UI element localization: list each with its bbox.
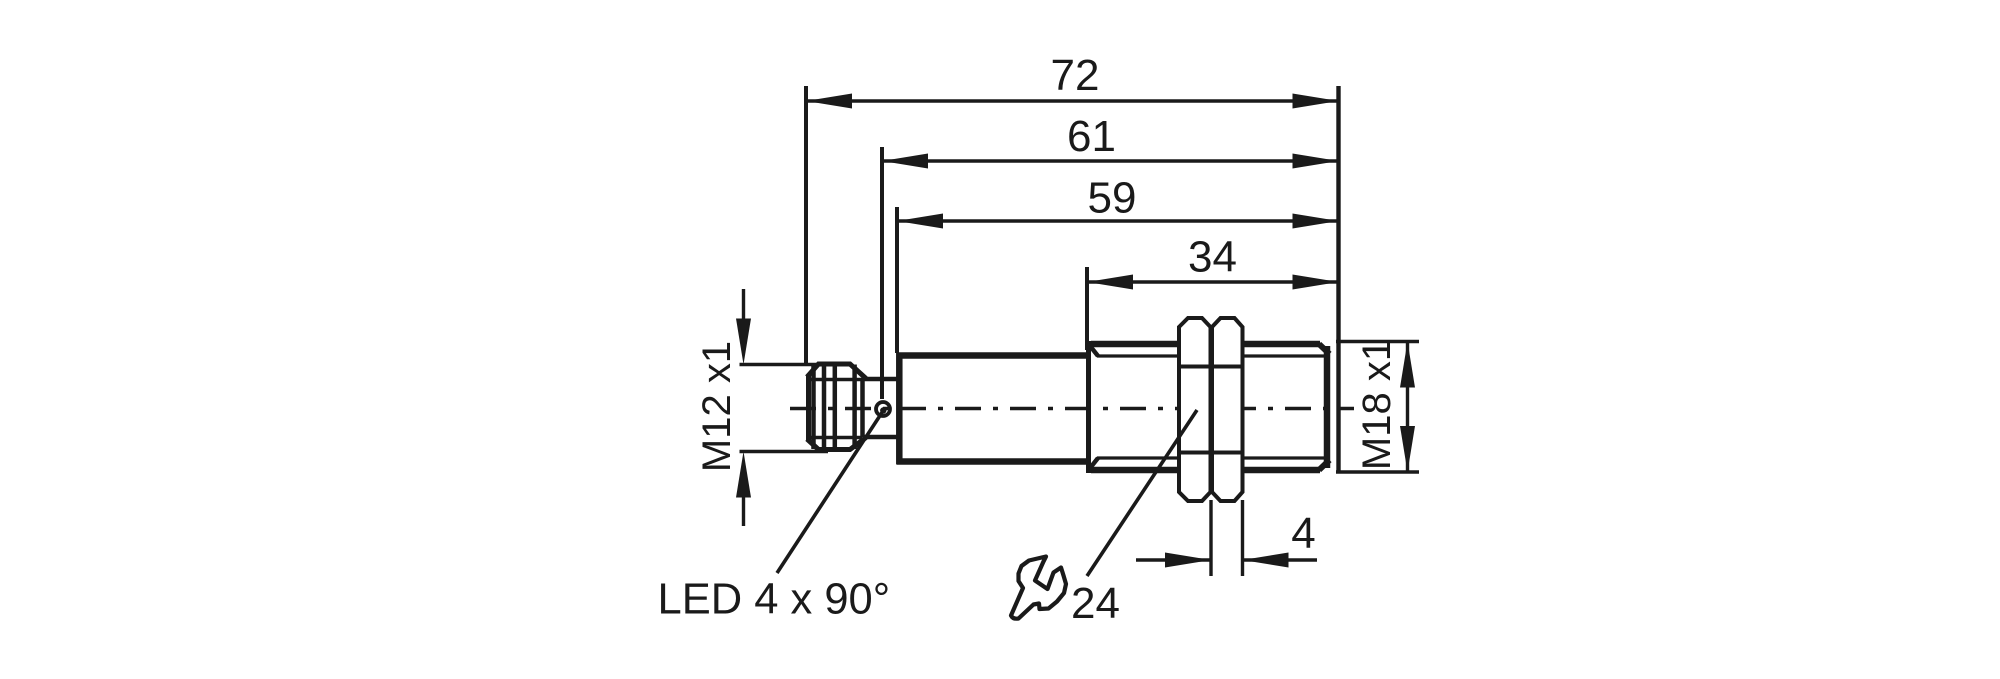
dim 4 left arrow xyxy=(1165,553,1211,568)
svg-text:59: 59 xyxy=(1088,174,1137,223)
dim 59 left arrow xyxy=(897,214,943,229)
dim 59 right arrow xyxy=(1293,214,1339,229)
M12 connector thread outline top xyxy=(807,364,866,379)
dim M12 lower stem xyxy=(742,494,745,526)
dim 61 left arrow xyxy=(882,154,928,169)
LED leader line xyxy=(777,411,883,573)
hex nut 2 facet line top xyxy=(1212,365,1243,369)
dim 34 right arrow xyxy=(1293,275,1339,290)
wrench icon xyxy=(1011,557,1066,619)
dim M18 upper arrow xyxy=(1400,342,1415,388)
M12 connector thread outline bottom xyxy=(807,438,866,450)
dim 34 line xyxy=(1087,280,1339,283)
hex nut 1 xyxy=(1179,318,1211,501)
M18 thread start chamfer bottom xyxy=(1089,458,1099,470)
M12 connector end face xyxy=(806,376,811,440)
M18 end chamfer top xyxy=(1319,344,1330,354)
dim M18 line xyxy=(1406,342,1409,473)
hex nut 2 facet line bottom xyxy=(1212,451,1243,455)
M12 connector neck top xyxy=(864,377,898,382)
dim M12 lower arrow xyxy=(736,452,751,498)
dim 4 left extension line xyxy=(1209,500,1212,576)
M12 thread root line bottom xyxy=(808,436,862,440)
dim 4 right arrow xyxy=(1243,553,1289,568)
dim 61 right arrow xyxy=(1293,154,1339,169)
centerline xyxy=(790,407,1354,410)
M12 thread line 4 xyxy=(852,365,857,450)
dim M12 lower tick xyxy=(740,450,829,453)
dim 72 right extension line xyxy=(1336,86,1340,472)
dim 4 left line xyxy=(1136,558,1211,561)
svg-text:M18 x1: M18 x1 xyxy=(1355,339,1399,470)
M18 thread root bottom line xyxy=(1097,456,1326,459)
dim 72 left extension line xyxy=(804,86,808,366)
svg-text:M12 x1: M12 x1 xyxy=(695,341,739,472)
M18 thread OD bottom line xyxy=(1091,467,1320,474)
dim 34 extension line xyxy=(1085,267,1089,350)
svg-text:24: 24 xyxy=(1071,579,1120,628)
dim 34 left arrow xyxy=(1087,275,1133,290)
dim 4 right line xyxy=(1243,558,1318,561)
M12 thread line 1 xyxy=(811,365,816,450)
svg-text:4: 4 xyxy=(1291,509,1315,558)
dim M12 upper stem xyxy=(742,289,745,322)
dim M18 upper tick xyxy=(1336,340,1419,343)
M18 thread step edge xyxy=(1086,341,1091,473)
wrench leader line xyxy=(1087,410,1197,576)
svg-text:72: 72 xyxy=(1051,51,1100,100)
svg-text:34: 34 xyxy=(1188,233,1237,282)
dim M12 upper arrow xyxy=(736,319,751,365)
svg-text:LED 4 x 90°: LED 4 x 90° xyxy=(658,576,891,624)
dim 59 line xyxy=(897,219,1339,222)
M12 thread root line top xyxy=(808,378,862,382)
M12 thread line 2 xyxy=(822,365,827,450)
dim 61 line xyxy=(882,159,1339,162)
dim 72 right arrow xyxy=(1293,94,1339,109)
dim M12 upper tick xyxy=(740,363,829,366)
dim 4 right extension line xyxy=(1241,500,1244,576)
M12 thread line 3 xyxy=(833,365,838,450)
sensor body top edge xyxy=(897,352,1088,359)
M18 thread OD top line xyxy=(1091,341,1320,348)
hex nut 1 facet line bottom xyxy=(1179,451,1211,455)
M18 end face xyxy=(1324,346,1331,468)
sensor body left edge xyxy=(896,353,903,465)
hex nut 2 xyxy=(1212,318,1243,501)
LED window circle xyxy=(876,402,890,416)
M18 end chamfer bottom xyxy=(1319,460,1330,470)
hex nut 1 facet line top xyxy=(1179,365,1211,369)
LED leader dot xyxy=(880,407,886,413)
dim M18 lower arrow xyxy=(1400,426,1415,472)
svg-text:61: 61 xyxy=(1067,112,1116,161)
dim 61 extension line xyxy=(880,147,884,399)
M12 thread runout edge xyxy=(860,378,865,437)
M12 connector neck bottom xyxy=(864,435,898,440)
dim 59 extension line xyxy=(895,207,899,353)
dim 72 line xyxy=(806,99,1339,102)
M18 thread start chamfer top xyxy=(1089,344,1099,356)
sensor body bottom edge xyxy=(897,458,1088,465)
M18 thread root top line xyxy=(1097,354,1326,357)
dim 72 left arrow xyxy=(806,94,852,109)
dim M18 lower tick xyxy=(1336,470,1419,473)
